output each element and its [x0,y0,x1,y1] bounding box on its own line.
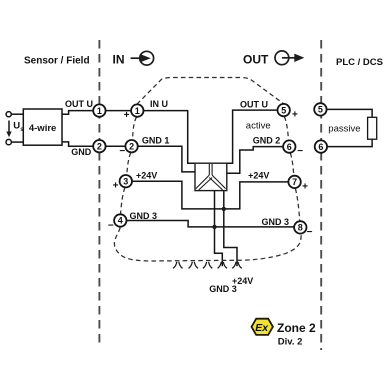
svg-text:OUT: OUT [243,53,269,67]
svg-text:6: 6 [287,142,292,152]
svg-text:4-wire: 4-wire [29,123,56,134]
svg-text:+24V: +24V [248,170,269,180]
svg-text:1: 1 [135,106,140,116]
svg-text:5: 5 [318,105,323,115]
svg-text:IN U: IN U [150,99,168,109]
svg-text:2: 2 [97,141,102,151]
svg-text:6: 6 [318,142,323,152]
svg-text:+: + [292,110,298,121]
svg-text:PLC / DCS: PLC / DCS [336,57,383,68]
svg-text:1: 1 [97,106,102,116]
svg-text:Ex: Ex [255,322,269,334]
svg-text:−: − [119,146,125,157]
svg-text:+24V: +24V [136,171,157,181]
svg-text:GND 3: GND 3 [130,211,158,221]
svg-text:Sensor / Field: Sensor / Field [24,56,90,67]
svg-text:7: 7 [292,177,297,187]
svg-text:GND 3: GND 3 [209,284,237,294]
svg-text:GND 1: GND 1 [142,136,170,146]
svg-text:+: + [113,181,119,192]
svg-text:+: + [124,110,130,121]
svg-text:3: 3 [123,176,128,186]
svg-text:GND: GND [71,147,92,157]
svg-text:4: 4 [118,216,123,226]
svg-text:OUT U: OUT U [65,99,93,109]
svg-text:U: U [13,121,20,132]
svg-text:OUT U: OUT U [240,99,268,109]
svg-text:active: active [246,120,271,131]
svg-text:+: + [302,182,308,193]
svg-text:GND 2: GND 2 [253,136,281,146]
svg-text:Div. 2: Div. 2 [278,336,303,347]
svg-text:−: − [108,220,114,231]
svg-text:GND 3: GND 3 [262,217,290,227]
svg-text:2: 2 [129,141,134,151]
svg-text:−: − [297,146,303,157]
svg-text:Zone 2: Zone 2 [277,321,316,335]
svg-text:5: 5 [281,105,286,115]
svg-text:IN: IN [113,53,125,67]
svg-text:−: − [307,227,313,238]
svg-text:8: 8 [298,223,303,233]
svg-text:passive: passive [328,123,360,134]
